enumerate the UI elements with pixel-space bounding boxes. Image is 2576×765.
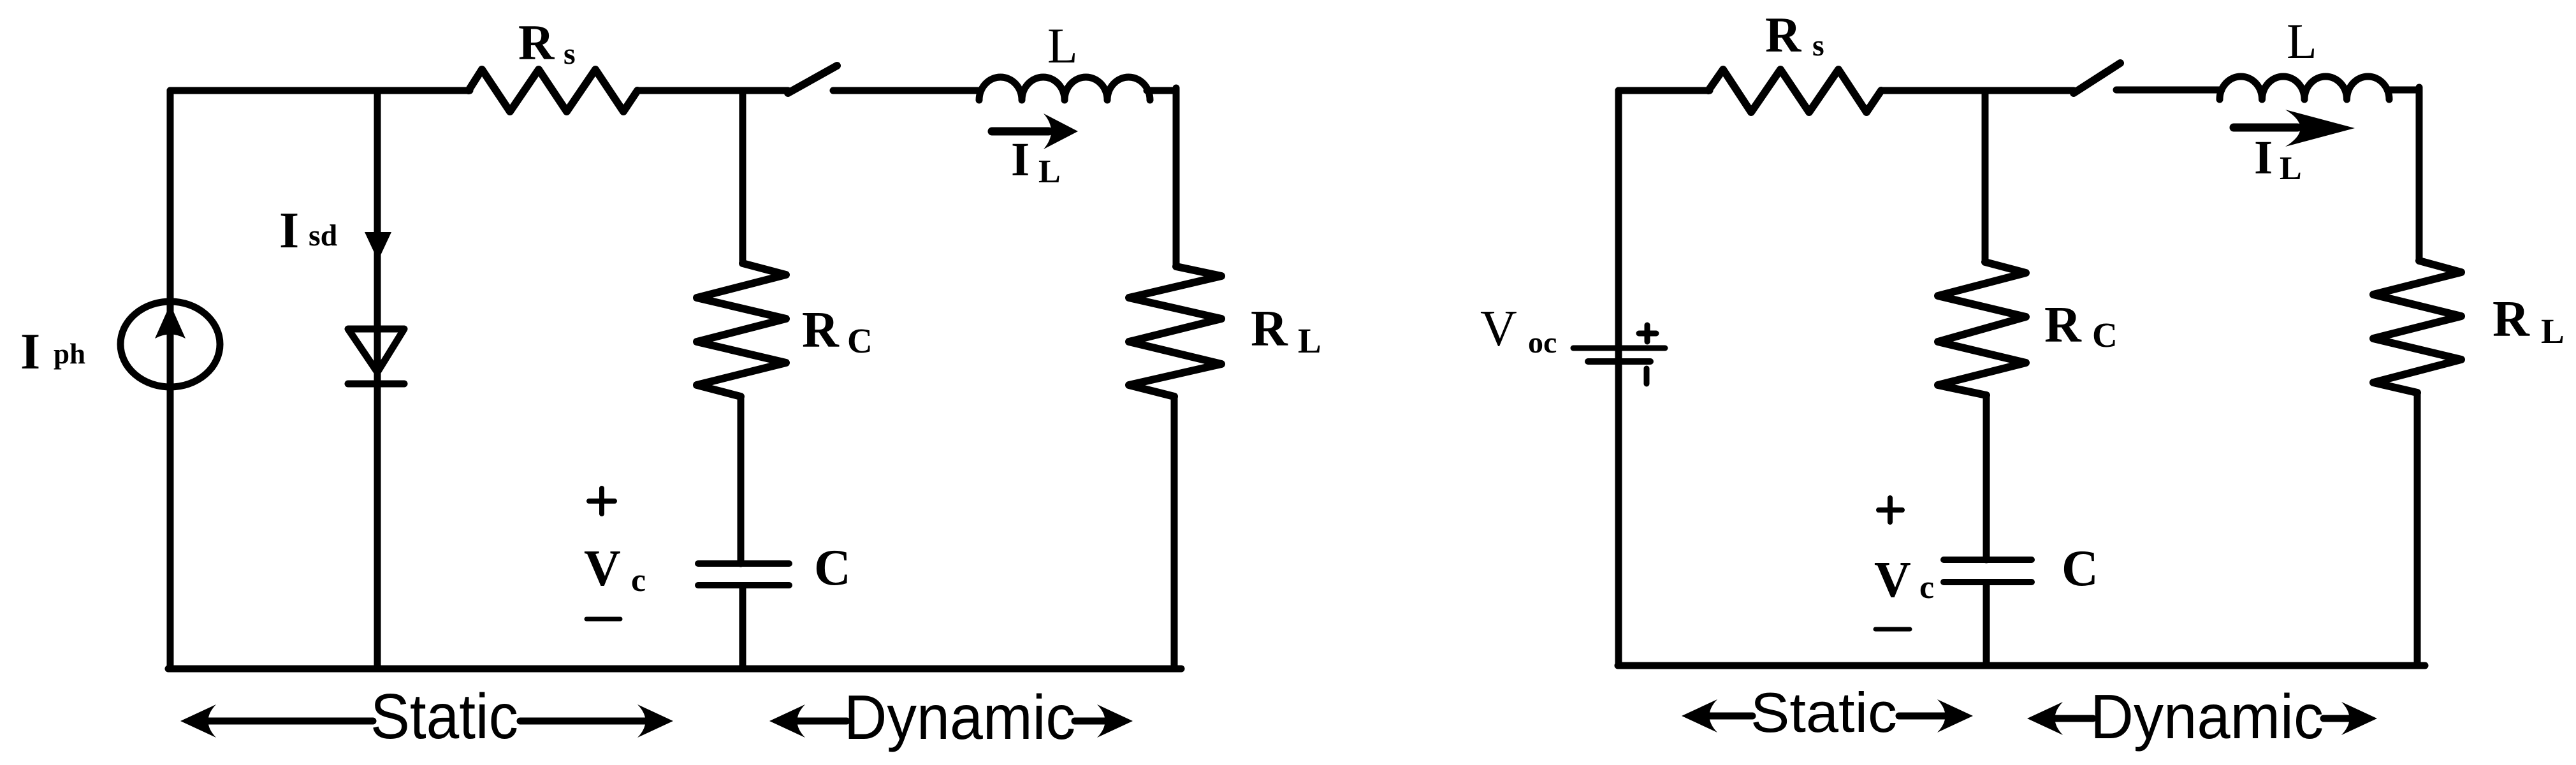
arrowhead IL (left) xyxy=(1044,113,1078,149)
resistor RL (right) zigzag xyxy=(2373,261,2461,393)
capacitor C (left) top plate xyxy=(698,560,789,567)
wire top-left segment xyxy=(170,87,470,94)
wire bottom (right circuit) xyxy=(1618,662,2425,669)
plus sign Vc (left) xyxy=(589,488,615,514)
resistor RC (left) zigzag xyxy=(697,263,786,397)
current arrow IL shaft (right) xyxy=(2234,124,2297,132)
wire right vertical top (right circuit) xyxy=(2416,87,2423,261)
svg-text:R: R xyxy=(802,302,840,358)
wire top-left segment (right circuit) xyxy=(1619,87,1710,94)
svg-text:R: R xyxy=(2492,291,2530,347)
svg-text:s: s xyxy=(1812,29,1824,62)
svg-text:R: R xyxy=(2044,297,2082,353)
arrow shaft Dynamic (right) xyxy=(2036,715,2368,722)
wire Rs to switch xyxy=(637,87,788,94)
inductor L (left) xyxy=(979,77,1150,100)
svg-text:c: c xyxy=(631,562,646,599)
wire inductor to corner xyxy=(1147,87,1176,94)
arrowheads Dynamic (left) xyxy=(769,704,805,738)
svg-text:C: C xyxy=(847,321,873,360)
svg-text:R: R xyxy=(1251,301,1288,357)
svg-text:Dynamic: Dynamic xyxy=(844,682,1075,752)
svg-text:sd: sd xyxy=(309,219,338,252)
wire right vertical top (left circuit) xyxy=(1173,88,1180,266)
wire left vertical (left circuit) xyxy=(167,91,174,669)
capacitor C (left) bottom plate xyxy=(698,582,789,588)
svg-text:L: L xyxy=(2541,312,2565,351)
minus sign Vc (right) xyxy=(1875,627,1910,632)
arrow shaft Static (right) xyxy=(1691,713,1964,720)
svg-text:R: R xyxy=(1765,7,1802,62)
wire inductor to corner (right) xyxy=(2387,87,2419,94)
capacitor C (right) bottom plate xyxy=(1944,579,2032,585)
wire RL to bottom (right) xyxy=(2414,393,2421,666)
current source Iph circle xyxy=(120,302,220,387)
wire capacitor to bottom (right) xyxy=(1983,585,1990,666)
resistor Rs (left) xyxy=(469,69,637,112)
wire RL to bottom xyxy=(1171,397,1178,669)
svg-text:I: I xyxy=(279,203,299,259)
wire switch to inductor (right) xyxy=(2116,87,2222,94)
svg-text:I: I xyxy=(2254,131,2273,184)
wire bottom (left circuit) xyxy=(168,666,1181,673)
wire RC branch top (left) xyxy=(739,91,746,263)
resistor Rs (right) xyxy=(1708,69,1881,112)
capacitor C (right) top plate xyxy=(1944,557,2032,563)
svg-text:Static: Static xyxy=(370,681,518,752)
arrowheads Static (left) xyxy=(180,704,216,738)
minus sign Vc (left) xyxy=(586,617,620,622)
wire RC branch top (right) xyxy=(1982,91,1989,262)
svg-text:V: V xyxy=(1874,552,1911,608)
wire switch to inductor xyxy=(833,87,981,94)
svg-text:I: I xyxy=(20,324,40,380)
svg-text:ph: ph xyxy=(54,338,85,370)
battery Voc long plate xyxy=(1573,346,1665,351)
arrow shaft Dynamic (left) xyxy=(778,718,1124,725)
wire capacitor to bottom xyxy=(739,588,746,669)
arrowheads Static (right) xyxy=(1682,699,1717,732)
svg-text:c: c xyxy=(1919,569,1934,606)
svg-text:s: s xyxy=(564,37,576,71)
wire RC to capacitor xyxy=(738,397,745,564)
svg-text:C: C xyxy=(2062,541,2099,597)
svg-text:C: C xyxy=(2092,316,2118,354)
battery minus tick xyxy=(1644,368,1650,384)
diode current Isd arrowhead xyxy=(365,232,391,261)
svg-text:V: V xyxy=(584,541,621,597)
svg-text:Static: Static xyxy=(1750,681,1897,744)
wire diode branch xyxy=(374,91,381,669)
arrow shaft Static (left) xyxy=(189,718,664,725)
arrowheads Dynamic (right) xyxy=(2027,702,2063,735)
battery Voc short plate xyxy=(1588,358,1650,365)
source Iph arrowhead xyxy=(155,304,186,339)
svg-text:L: L xyxy=(2280,150,2302,187)
svg-text:C: C xyxy=(814,540,851,596)
svg-text:L: L xyxy=(1047,18,1078,73)
plus sign Vc (right) xyxy=(1879,498,1902,522)
svg-text:L: L xyxy=(1038,154,1061,190)
svg-text:R: R xyxy=(518,15,555,70)
inductor L (right) xyxy=(2220,76,2389,99)
arrowhead IL (right) xyxy=(2285,110,2355,147)
svg-text:oc: oc xyxy=(1528,326,1557,360)
current arrow IL shaft (left) xyxy=(992,127,1049,136)
svg-text:L: L xyxy=(2287,13,2317,69)
diode triangle xyxy=(348,329,404,372)
switch blade (right) xyxy=(2074,63,2120,93)
wire Rs to switch (right) xyxy=(1881,87,2074,94)
resistor RC (right) zigzag xyxy=(1938,262,2026,395)
resistor RL (left) zigzag xyxy=(1129,266,1221,397)
switch blade (left) xyxy=(788,66,837,93)
svg-text:L: L xyxy=(1298,321,1321,360)
battery plus sign xyxy=(1639,325,1656,342)
svg-text:I: I xyxy=(1011,133,1030,186)
svg-text:Dynamic: Dynamic xyxy=(2090,681,2324,752)
wire RC to capacitor (right) xyxy=(1983,395,1990,560)
wire left vertical (right circuit) xyxy=(1615,91,1622,665)
svg-text:V: V xyxy=(1480,301,1517,357)
diode cathode bar xyxy=(348,381,404,388)
